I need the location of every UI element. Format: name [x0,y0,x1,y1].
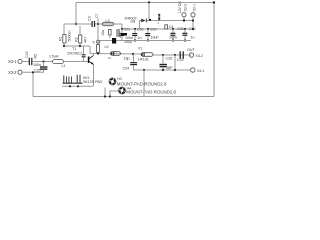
svg-text:100n: 100n [169,36,177,40]
wire y40.5 rail [100,40,191,42]
svg-text:R2: R2 [75,37,79,42]
wire y24 horizontal [64,23,122,25]
wire y29 rail [122,28,193,30]
resistor R2 x80 [75,26,88,46]
choke L5 humps x118 [116,30,120,37]
svg-text:R1: R1 [59,36,63,41]
capacitor C21 (x122) [119,28,133,41]
svg-text:L4: L4 [105,45,109,49]
svg-text:SK129: SK129 [83,80,94,84]
svg-text:50ohm: 50ohm [68,31,72,42]
svg-text:T1: T1 [72,47,76,51]
svg-text:C24: C24 [123,67,130,71]
inductor L1 [49,55,65,69]
svg-text:PAD: PAD [95,80,102,84]
node 175,55 [174,54,176,56]
svg-text:H3: H3 [117,77,122,81]
svg-text:1.5uH: 1.5uH [49,55,59,59]
svg-text:1n: 1n [191,36,195,40]
svg-text:100u: 100u [124,40,132,44]
pad X3-2 [8,70,44,75]
capacitor C22 blob x159 [158,14,161,25]
wire left lower vertical [32,72,34,97]
tick mark left bottom [13,78,15,82]
rotated label R5 [33,54,37,59]
rotated label 1u [101,30,105,36]
node 33,72.3 [32,71,34,73]
capacitor C6 beside base [82,46,86,62]
node 175,70 [174,69,176,71]
svg-text:100n: 100n [33,63,41,67]
node 163,70 [162,69,164,71]
svg-text:MOUNT-PAD-ROUND2.8: MOUNT-PAD-ROUND2.8 [126,90,176,95]
wire corner x90 down [89,46,91,54]
wire x140 diode anode to rail29 [139,21,141,30]
svg-text:5: 5 [93,40,95,44]
wire emitter down x93.5 [93,65,95,87]
resistor R1 x64 [59,24,72,46]
wire y70 rail [134,69,191,71]
capacitor C23 series on y55 [177,51,184,62]
svg-text:C31: C31 [177,27,184,31]
svg-text:C19: C19 [25,51,29,58]
svg-text:2SC4617: 2SC4617 [67,52,82,56]
svg-text:X2-2: X2-2 [184,4,188,11]
svg-text:C26: C26 [166,57,173,61]
svg-text:C21: C21 [124,28,131,32]
pad X4-1 [191,68,205,73]
pad X2-1 [191,4,197,30]
capacitor C20 filled on rail40 [112,38,116,44]
svg-text:V1: V1 [138,47,142,51]
mounting pad H4 [119,86,177,94]
capacitor C3 series on y24 [88,16,95,27]
wire right side [213,3,215,97]
wire x76 vertical [75,3,77,25]
svg-text:10u: 10u [101,30,105,36]
capacitor C19 series [25,51,32,65]
pin circle left end of y40.5 [93,40,100,44]
component small outline x109 [109,30,112,39]
svg-text:C30: C30 [137,28,144,32]
node 43.5,61.5 [42,60,44,62]
svg-text:OUT: OUT [187,48,195,52]
wire corner 122,24 down to rail29 [121,24,123,29]
svg-text:4K7: 4K7 [84,37,88,43]
svg-text:MOUNT-PAD-ROUND2.8: MOUNT-PAD-ROUND2.8 [117,82,167,87]
inductor L3 on y24 [103,19,114,26]
svg-text:D8: D8 [131,19,136,23]
svg-text:X4-1: X4-1 [197,69,204,73]
wire x98 vertical [97,19,99,45]
node 98,53.5 [97,52,99,54]
svg-text:X2-1: X2-1 [193,4,197,11]
wire x105 to bottom rail [104,88,106,98]
node 122,29 [121,28,123,30]
svg-text:16P: 16P [166,66,173,70]
svg-text:HF101: HF101 [138,58,149,62]
svg-text:L1: L1 [62,64,66,68]
svg-text:X3-1: X3-1 [8,59,17,64]
heatsink KK1 [63,75,103,84]
wire x175 down [174,55,176,70]
svg-text:R5: R5 [33,54,37,59]
capacitor C30 (x135) [132,28,143,42]
node 133,54 [132,53,134,55]
pad X3-1 [8,59,29,64]
node 144,70 [143,69,145,71]
wire y53.5 [90,53,141,56]
svg-text:C23: C23 [177,58,184,62]
capacitor C25 vertical x44 [34,62,47,73]
wire top rail [76,2,214,4]
wire heatsink to emitter y86 [62,85,94,87]
capacitor C4 small vertical above rail (x166) [165,25,174,29]
svg-text:16p: 16p [124,57,130,61]
wire x110 corner to H4 [109,91,118,98]
svg-text:10uF: 10uF [151,35,160,39]
node top-right corner [213,1,215,3]
capacitor C21 plus plate [120,33,132,44]
node 98,24 [97,23,99,25]
mounting pad H3 [109,77,167,87]
svg-text:C25: C25 [34,69,41,73]
inductor V1 HF101 [138,47,153,62]
node 76,24 [75,23,77,25]
svg-text:1n: 1n [138,36,142,40]
svg-text:L3: L3 [106,19,110,23]
diode D8 [124,17,193,24]
wire L1 to base [64,61,87,63]
wire y46 [63,45,90,47]
pad X4-2 OUT [187,48,203,58]
svg-text:X4-2: X4-2 [196,54,203,58]
node 163,55 [162,54,164,56]
rotated label C7 top [95,13,99,18]
inductor L4 on y53.5 [105,45,121,60]
transistor T1 [67,47,94,65]
capacitor C26 x163 [160,55,173,70]
capacitor C29 (x148) [145,27,159,41]
svg-text:X3-2: X3-2 [8,70,17,75]
svg-text:C7: C7 [95,13,99,18]
wire x149 from top [148,1,151,21]
pad X2-2 [178,1,188,22]
capacitor C24 x133.5 [123,54,138,71]
svg-text:C3: C3 [88,16,92,21]
svg-text:1u: 1u [108,56,112,60]
wire bottom rail [33,96,214,98]
wire after C19 [33,62,53,67]
capacitor C31 (x173) [169,27,184,42]
capacitor C32 (x185) [182,27,195,42]
wire y54.5 right segment [153,54,192,56]
resistor R3 vertical x98 [97,45,100,54]
svg-text:C29: C29 [150,27,157,31]
wire x144 down to bottom [143,70,145,97]
svg-text:12V DC: 12V DC [178,1,182,14]
